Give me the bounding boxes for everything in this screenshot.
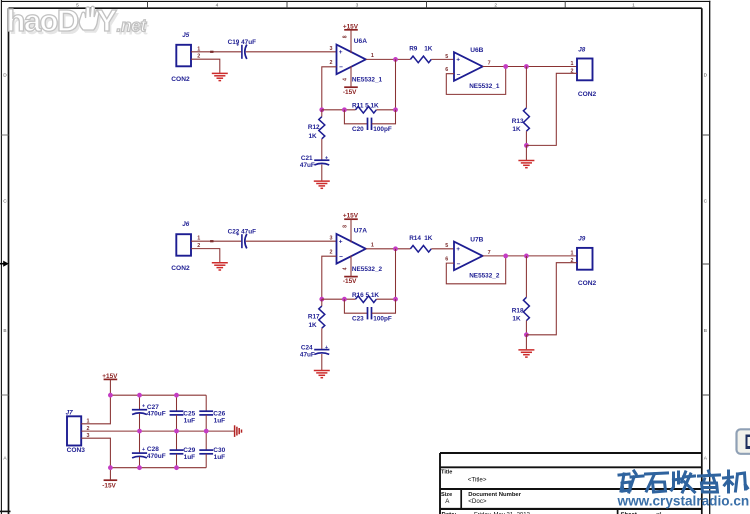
svg-text:<Doc>: <Doc>: [468, 498, 487, 505]
svg-text:-15V: -15V: [343, 89, 357, 96]
title block Doc value: [468, 498, 487, 505]
wire -15V rail: [110, 467, 206, 469]
ground at R13: [518, 161, 534, 168]
wire U6A.2 to feedback node: [322, 67, 337, 110]
wire J5.2 to ground: [191, 59, 220, 73]
title block Title label: [441, 470, 452, 476]
svg-text:+15V: +15V: [343, 23, 359, 30]
svg-text:1: 1: [571, 61, 574, 67]
-15V power symbol: [102, 468, 117, 490]
svg-text:1: 1: [371, 53, 374, 59]
svg-text:3: 3: [330, 236, 333, 242]
svg-text:7: 7: [488, 61, 491, 67]
crystalradio watermark: [617, 471, 750, 509]
feedback wire U7B: [446, 256, 505, 284]
pin 2 of J5: [197, 54, 200, 60]
svg-text:470uF: 470uF: [147, 411, 166, 418]
connector J6: [171, 221, 191, 272]
node top rail: [174, 393, 179, 398]
title block frame: [440, 453, 702, 514]
resistor R16 5.1K: [352, 292, 379, 302]
svg-text:Size: Size: [441, 492, 452, 498]
pin 1 of J7: [87, 419, 90, 425]
pin 3 of J7: [87, 433, 90, 439]
wire C21 to ground: [321, 165, 323, 181]
pin 1 of J6: [197, 236, 200, 242]
node R13 bottom: [524, 143, 529, 148]
svg-text:+: +: [339, 49, 343, 56]
capacitor C29 1uF: [170, 431, 196, 468]
wire node to ground: [525, 335, 527, 350]
wire U6B.7 to J8: [483, 66, 577, 68]
ground at C21: [314, 181, 330, 188]
connector J9: [577, 236, 597, 288]
svg-text:NE5532_1: NE5532_1: [352, 76, 383, 83]
resistor R9 1K: [409, 46, 433, 63]
title block Size label: [441, 492, 452, 505]
node at R18 top: [524, 254, 529, 259]
resistor R11 5.1K: [352, 103, 379, 113]
pin 8 label of U7A: [342, 225, 348, 228]
resistor R18 1K: [512, 256, 530, 323]
svg-text:U6A: U6A: [354, 38, 367, 45]
svg-text:CON3: CON3: [67, 447, 86, 454]
svg-text:+: +: [142, 404, 145, 410]
svg-text:1uF: 1uF: [184, 454, 196, 461]
wire J5.1 to C19: [191, 51, 241, 53]
connector J5: [171, 32, 191, 83]
svg-text:CON2: CON2: [578, 280, 597, 287]
pin 1 of J8: [571, 61, 574, 67]
svg-text:100pF: 100pF: [373, 126, 392, 133]
node mid rail: [137, 429, 142, 434]
svg-text:2: 2: [494, 2, 497, 8]
svg-text:−: −: [339, 253, 343, 260]
title block Title value: [468, 476, 487, 483]
wire J7.1 to +15V rail: [81, 395, 110, 424]
svg-text:4: 4: [342, 267, 348, 270]
pin 1 label of U6A: [371, 53, 374, 59]
svg-text:1uF: 1uF: [214, 417, 226, 424]
junction tick on input wire: [210, 240, 213, 242]
node -15V rail at stem: [108, 465, 113, 470]
wire J6.2 to ground: [191, 249, 220, 263]
pin 1 of J9: [571, 251, 574, 257]
node at U7A output: [393, 246, 398, 251]
ground at R18: [518, 350, 534, 357]
svg-text:C23: C23: [352, 315, 364, 322]
svg-text:B: B: [3, 328, 6, 334]
zone ticks: [1, 1, 709, 395]
wire feedback row right: [376, 109, 395, 111]
feedback wire U6B: [446, 67, 505, 95]
node bottom rail: [174, 465, 179, 470]
svg-text:-15V: -15V: [343, 278, 357, 285]
op-amp U6B: [454, 47, 500, 90]
node mid rail: [174, 429, 179, 434]
svg-text:5: 5: [445, 243, 448, 249]
svg-text:R18: R18: [512, 308, 524, 315]
partial UI button at right edge: [737, 429, 750, 454]
capacitor C27 470uF: [132, 395, 166, 431]
svg-text:47uF: 47uF: [300, 351, 315, 358]
svg-text:+: +: [325, 345, 328, 351]
svg-text:+15V: +15V: [343, 213, 359, 220]
svg-text:+: +: [456, 246, 460, 253]
node at U6A output: [393, 57, 398, 62]
op-amp U7A: [337, 228, 383, 273]
svg-text:J8: J8: [578, 46, 586, 53]
resistor R17 1K: [308, 299, 325, 329]
junction tick on input wire: [210, 51, 213, 53]
capacitor C22 47uF: [228, 229, 257, 249]
svg-text:1K: 1K: [512, 126, 521, 133]
wire +15V rail: [110, 394, 206, 396]
ground at J6: [212, 263, 228, 270]
wire node to ground: [525, 145, 527, 160]
node feedback left: [319, 107, 324, 112]
svg-text:R16 5.1K: R16 5.1K: [352, 292, 379, 299]
capacitor C21 47uF: [300, 155, 330, 169]
pin 5 label of U6B: [445, 54, 448, 60]
svg-text:J6: J6: [182, 221, 190, 228]
node feedback mid: [342, 107, 347, 112]
capacitor C20 100pF: [344, 110, 395, 133]
wire J6.1 to C22: [191, 240, 241, 242]
svg-text:+: +: [142, 447, 145, 453]
node at R13 top: [524, 64, 529, 69]
svg-text:7: 7: [488, 250, 491, 256]
-15V power symbol at U6A: [343, 66, 358, 96]
resistor R12 1K: [308, 110, 325, 140]
haoDY.net watermark: [7, 3, 150, 41]
+15V power symbol at U6A: [343, 23, 359, 53]
wire U6A.1 to R9: [366, 58, 411, 60]
wire output node down to feedback row: [395, 249, 397, 299]
wire output node down to feedback row: [395, 59, 397, 109]
svg-text:5: 5: [445, 54, 448, 60]
svg-text:1: 1: [571, 251, 574, 257]
svg-text:B: B: [704, 328, 707, 334]
ground at J5: [212, 73, 228, 80]
svg-text:R17: R17: [308, 314, 320, 321]
wire J7.3 to -15V rail: [81, 438, 110, 468]
node feedback left: [319, 297, 324, 302]
node +15V rail at stem: [108, 393, 113, 398]
svg-text:R9: R9: [409, 46, 418, 53]
pin 3 label of U7A: [330, 236, 333, 242]
connector J7: [66, 409, 86, 454]
svg-text:NE5532_1: NE5532_1: [469, 83, 500, 90]
svg-text:100pF: 100pF: [373, 315, 392, 322]
ground at C24: [314, 371, 330, 378]
pin 3 label of U6A: [330, 46, 333, 52]
stray mark bottom-left: [0, 510, 11, 512]
title block date row (clipped): [442, 513, 662, 514]
pin 2 of J7: [87, 426, 90, 432]
wire U7A.2 to feedback node: [322, 256, 337, 299]
svg-text:−: −: [457, 261, 461, 268]
capacitor C30 1uF: [199, 431, 225, 468]
node mid rail: [204, 429, 209, 434]
svg-text:3: 3: [356, 2, 359, 8]
pin 8 label of U6A: [342, 35, 348, 38]
svg-text:J9: J9: [578, 236, 586, 243]
svg-text:CON2: CON2: [578, 91, 597, 98]
svg-text:Y: Y: [97, 3, 118, 38]
title block Document Number label: [468, 492, 521, 498]
svg-text:2: 2: [330, 250, 333, 256]
capacitor C28 470uF: [132, 431, 166, 468]
svg-text:470uF: 470uF: [147, 453, 166, 460]
svg-text:1: 1: [632, 2, 635, 8]
wire mid rail (J7.2 to ground): [81, 430, 234, 432]
svg-text:U6B: U6B: [470, 47, 483, 54]
svg-text:R12: R12: [308, 124, 320, 131]
op-amp U6A: [337, 38, 383, 83]
op-amp U7B: [454, 236, 500, 279]
svg-text:haoD: haoD: [7, 3, 79, 38]
connector J8: [577, 46, 597, 98]
svg-text:U7B: U7B: [470, 236, 483, 243]
wire R13 to ground node: [525, 131, 527, 145]
node top rail: [137, 393, 142, 398]
svg-text:C22 47uF: C22 47uF: [228, 229, 257, 236]
-15V power symbol at U7A: [343, 255, 358, 285]
wire feedback row left: [322, 109, 356, 111]
svg-text:C20: C20: [352, 126, 364, 133]
svg-text:1K: 1K: [512, 316, 521, 323]
capacitor C26 1uF: [199, 395, 225, 431]
wire J9.2 to ground node: [526, 263, 577, 335]
wire C24 to ground: [321, 354, 323, 370]
node feedback mid: [342, 297, 347, 302]
wire U7B.7 to J9: [483, 255, 577, 257]
svg-text:2: 2: [330, 60, 333, 66]
node at U6B output: [503, 64, 508, 69]
svg-text:8: 8: [342, 225, 348, 228]
svg-text:Title: Title: [441, 470, 452, 476]
resistor R13 1K: [512, 67, 530, 134]
svg-text:C: C: [3, 198, 7, 204]
svg-text:1: 1: [371, 243, 374, 249]
svg-text:+: +: [339, 239, 343, 246]
svg-text:J7: J7: [66, 409, 74, 416]
pin 2 of J8: [571, 68, 574, 74]
svg-text:1K: 1K: [424, 46, 433, 53]
svg-text:R13: R13: [512, 118, 524, 125]
pin 1 of J5: [197, 46, 200, 52]
pin 2 label of U7A: [330, 250, 333, 256]
svg-text:6: 6: [445, 257, 448, 263]
svg-text:D: D: [3, 72, 7, 78]
wire R9 to U6B pin5: [431, 58, 454, 60]
svg-text:CON2: CON2: [171, 76, 190, 83]
+15V power symbol: [102, 373, 118, 395]
svg-text:D: D: [704, 72, 708, 78]
pin 2 label of U6A: [330, 60, 333, 66]
svg-text:www.crystalradio.cn: www.crystalradio.cn: [617, 494, 750, 509]
node bottom rail: [137, 465, 142, 470]
wire J8.2 to ground node: [526, 73, 577, 145]
pin 2 of J9: [571, 258, 574, 264]
svg-text:1K: 1K: [424, 235, 433, 242]
svg-text:NE5532_2: NE5532_2: [352, 266, 383, 273]
svg-text:4: 4: [216, 2, 219, 8]
pin 2 of J6: [197, 243, 200, 249]
capacitor C25 1uF: [170, 395, 196, 431]
wire feedback row left: [322, 298, 356, 300]
pin 4 label of U7A: [342, 267, 348, 270]
svg-text:J5: J5: [182, 32, 190, 39]
svg-text:+: +: [456, 57, 460, 64]
wire R18 to ground node: [525, 321, 527, 335]
svg-text:.net: .net: [117, 16, 148, 36]
svg-text:6: 6: [445, 67, 448, 73]
svg-text:-15V: -15V: [102, 483, 116, 490]
svg-text:U7A: U7A: [354, 228, 367, 235]
svg-text:−: −: [457, 72, 461, 79]
svg-text:1K: 1K: [309, 322, 318, 329]
capacitor C19 47uF: [228, 39, 257, 59]
svg-text:+15V: +15V: [102, 373, 118, 380]
svg-text:<Title>: <Title>: [468, 476, 487, 483]
pin 5 label of U7B: [445, 243, 448, 249]
pin 1 label of U7A: [371, 243, 374, 249]
pin 4 label of U6A: [342, 78, 348, 81]
node R18 bottom: [524, 332, 529, 337]
svg-text:4: 4: [342, 78, 348, 81]
svg-text:3: 3: [330, 46, 333, 52]
pin 7 label of U6B: [488, 61, 491, 67]
node feedback right: [393, 297, 398, 302]
svg-text:CON2: CON2: [171, 265, 190, 272]
svg-text:−: −: [339, 64, 343, 71]
svg-text:1K: 1K: [309, 133, 318, 140]
node at U7B output: [503, 254, 508, 259]
svg-text:47uF: 47uF: [300, 162, 315, 169]
svg-text:R11 5.1K: R11 5.1K: [352, 103, 379, 110]
node feedback right: [393, 107, 398, 112]
cursor arrow on left border: [0, 261, 9, 267]
svg-text:NE5532_2: NE5532_2: [469, 272, 500, 279]
wire R12 to C21: [321, 139, 323, 160]
pin 7 label of U7B: [488, 250, 491, 256]
wire R14 to U7B pin5: [431, 248, 454, 250]
wire C22 to U7A pin3: [246, 240, 337, 242]
capacitor C24 47uF: [300, 345, 330, 359]
wire feedback row right: [376, 298, 395, 300]
wire R17 to C24: [321, 328, 323, 349]
wire C19 to U6A pin3: [246, 51, 337, 53]
svg-text:8: 8: [342, 35, 348, 38]
ground right of mid rail: [235, 425, 242, 437]
wire U7A.1 to R14: [366, 248, 411, 250]
+15V power symbol at U7A: [343, 213, 359, 243]
svg-text:C19 47uF: C19 47uF: [228, 39, 257, 46]
pin 6 label of U6B: [445, 67, 448, 73]
svg-text:+: +: [325, 156, 328, 162]
svg-text:R14: R14: [409, 235, 421, 242]
pin 6 label of U7B: [445, 257, 448, 263]
svg-text:1uF: 1uF: [214, 454, 226, 461]
resistor R14 1K: [409, 235, 433, 252]
svg-text:C: C: [704, 198, 708, 204]
svg-text:1uF: 1uF: [184, 417, 196, 424]
capacitor C23 100pF: [344, 299, 395, 322]
